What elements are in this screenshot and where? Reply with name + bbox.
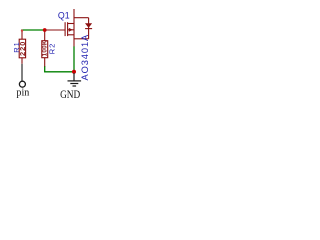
- arrow of Q1: [69, 28, 73, 32]
- svg-text:GND: GND: [60, 89, 81, 101]
- wire: [21, 29, 45, 31]
- pin port circle: [19, 81, 25, 87]
- wire: [73, 46, 75, 72]
- wire: [44, 66, 46, 72]
- svg-text:220: 220: [18, 41, 27, 56]
- ground: [68, 73, 82, 86]
- svg-text:pin: pin: [16, 87, 30, 98]
- svg-text:R2: R2: [48, 43, 57, 55]
- node junction gate: [43, 28, 47, 32]
- node junction gnd: [72, 70, 76, 74]
- pin port lead: [21, 64, 23, 81]
- svg-text:Q1: Q1: [58, 10, 70, 20]
- body diode triangle: [85, 23, 92, 28]
- svg-text:AO3401A: AO3401A: [80, 34, 90, 81]
- wire: [44, 71, 74, 73]
- resistor R2: [42, 30, 48, 67]
- resistor R1: [19, 30, 25, 63]
- transistor Q1 (PMOS AO3401A): [45, 9, 92, 46]
